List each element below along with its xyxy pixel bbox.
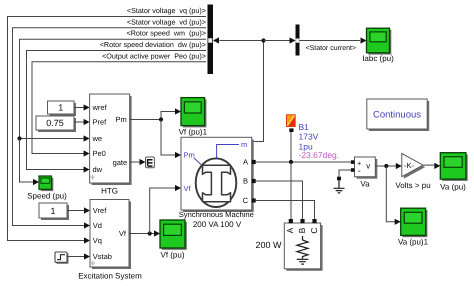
wire wm feedback — [20, 39, 207, 141]
wire phase C — [256, 201, 315, 220]
svg-text:Va: Va — [360, 180, 370, 189]
svg-text:Excitation System: Excitation System — [78, 271, 142, 280]
constant 1 (Vref) — [39, 203, 69, 220]
scope Va (pu)1 — [401, 208, 428, 237]
svg-text:HTG: HTG — [101, 187, 118, 196]
load 200 W — [284, 219, 322, 271]
junction Va node — [384, 164, 388, 168]
wire dw feedback — [27, 51, 207, 173]
svg-text:we: we — [92, 134, 103, 143]
wire phase A — [256, 161, 351, 163]
ground G1 — [334, 177, 345, 193]
wire wref — [74, 104, 90, 110]
svg-text:dw: dw — [93, 165, 103, 174]
wire Va to scope Va(pu)1 — [386, 166, 400, 225]
svg-text:1: 1 — [58, 103, 63, 113]
svg-text:wref: wref — [92, 103, 108, 112]
wire Pm net — [130, 108, 181, 119]
wire stator current — [300, 37, 367, 43]
wire Vf to machine — [150, 185, 181, 234]
svg-text:1: 1 — [50, 206, 55, 216]
svg-text:v: v — [366, 162, 370, 171]
voltage measurement Va — [351, 157, 377, 179]
svg-text:B1: B1 — [299, 122, 310, 132]
svg-text:A: A — [285, 227, 295, 233]
wire gain to scope — [423, 163, 440, 169]
svg-text:Pm: Pm — [116, 115, 127, 124]
svg-text:Vq: Vq — [93, 236, 102, 245]
svg-text:200 VA 100 V: 200 VA 100 V — [193, 220, 242, 229]
svg-text:0.75: 0.75 — [46, 118, 64, 128]
svg-text:C: C — [309, 227, 319, 233]
wire m to selector2 — [264, 37, 296, 43]
scope Iabc (pu) — [367, 28, 392, 54]
svg-text:Pm: Pm — [184, 151, 195, 160]
junction m node — [261, 38, 265, 42]
wire Vref — [67, 207, 90, 213]
wire vq feedback — [8, 17, 207, 244]
wire vd feedback — [13, 28, 207, 229]
svg-text:B: B — [243, 177, 248, 186]
wire m from machine — [252, 41, 264, 142]
svg-text:<Stator voltage vq (pu)>: <Stator voltage vq (pu)> — [127, 6, 206, 15]
svg-text:gate: gate — [113, 158, 128, 167]
wire wm to speed scope — [20, 139, 40, 186]
svg-text:<Stator current>: <Stator current> — [306, 45, 357, 52]
svg-text:<Stator voltage vd (pu)>: <Stator voltage vd (pu)> — [127, 17, 206, 26]
scope Vf (pu)1 — [181, 98, 206, 128]
svg-text:Vf (pu)1: Vf (pu)1 — [179, 127, 208, 136]
bus selector bar2 — [296, 25, 300, 56]
svg-text:-: - — [358, 165, 361, 175]
svg-text:m: m — [241, 140, 247, 149]
block Excitation System — [90, 200, 131, 270]
svg-text:C: C — [243, 196, 249, 205]
wire Pm to machine — [161, 120, 181, 159]
svg-text:Speed (pu): Speed (pu) — [27, 191, 67, 200]
svg-text:Va (pu)1: Va (pu)1 — [398, 238, 429, 247]
constant 0.75 (Pref) — [36, 116, 76, 132]
svg-text:Pe0: Pe0 — [93, 149, 106, 158]
wire A drop to load — [290, 162, 292, 219]
constant 1 (wref) — [48, 101, 77, 116]
svg-text:Vref: Vref — [93, 206, 107, 215]
terminator gate — [146, 157, 155, 168]
wire Vstab — [67, 253, 90, 259]
svg-text:-K-: -K- — [404, 161, 415, 170]
wire phase B — [256, 181, 303, 219]
scope Vf (pu) — [160, 220, 187, 250]
bus selector bar1 — [208, 5, 214, 75]
svg-text:Continuous: Continuous — [373, 110, 421, 121]
svg-text:Pref: Pref — [93, 118, 108, 127]
junction wm node — [17, 136, 21, 140]
step source Vstab — [55, 252, 69, 264]
svg-text:Vf: Vf — [184, 184, 192, 193]
svg-text:Vd: Vd — [93, 221, 102, 230]
svg-text:Volts > pu: Volts > pu — [395, 181, 430, 190]
svg-text:B: B — [297, 227, 307, 233]
svg-text:Iabc (pu): Iabc (pu) — [362, 54, 394, 63]
svg-text:Synchronous Machine: Synchronous Machine — [179, 210, 254, 219]
wire B1 drop — [290, 132, 292, 162]
wire Vf net — [129, 230, 160, 236]
block HTG — [90, 94, 132, 185]
svg-text:<Rotor speed deviation dw (pu: <Rotor speed deviation dw (pu)> — [100, 40, 206, 49]
scope Va (pu) — [440, 153, 467, 181]
svg-text:Vf: Vf — [119, 229, 127, 238]
svg-text:Va (pu): Va (pu) — [440, 183, 466, 192]
powergui Continuous — [367, 99, 429, 131]
gain Volts to pu — [402, 154, 425, 179]
wire Peo feedback — [32, 62, 206, 157]
load flow bus B1 — [287, 115, 296, 132]
wire minus to ground — [339, 170, 351, 177]
svg-text:200 W: 200 W — [255, 240, 282, 250]
wire gate — [130, 159, 146, 165]
svg-text:Vstab: Vstab — [93, 252, 112, 261]
svg-text:<Rotor speed wm (pu)>: <Rotor speed wm (pu)> — [127, 29, 207, 38]
svg-text:-23.67deg.: -23.67deg. — [299, 150, 340, 160]
wire Pref — [74, 119, 90, 125]
svg-text:173V: 173V — [299, 132, 319, 142]
wire Va output — [375, 163, 402, 169]
svg-text:Vf (pu): Vf (pu) — [160, 251, 184, 260]
junction Vf node — [148, 231, 152, 235]
junction Pm node — [159, 117, 163, 121]
junction phase A node — [289, 160, 293, 164]
wire m into bus selector — [213, 37, 264, 43]
svg-text:A: A — [243, 158, 248, 167]
scope Speed (pu) — [39, 176, 53, 191]
svg-text:<Output active power Peo (pu): <Output active power Peo (pu)> — [102, 51, 206, 60]
block Synchronous Machine — [181, 137, 256, 212]
